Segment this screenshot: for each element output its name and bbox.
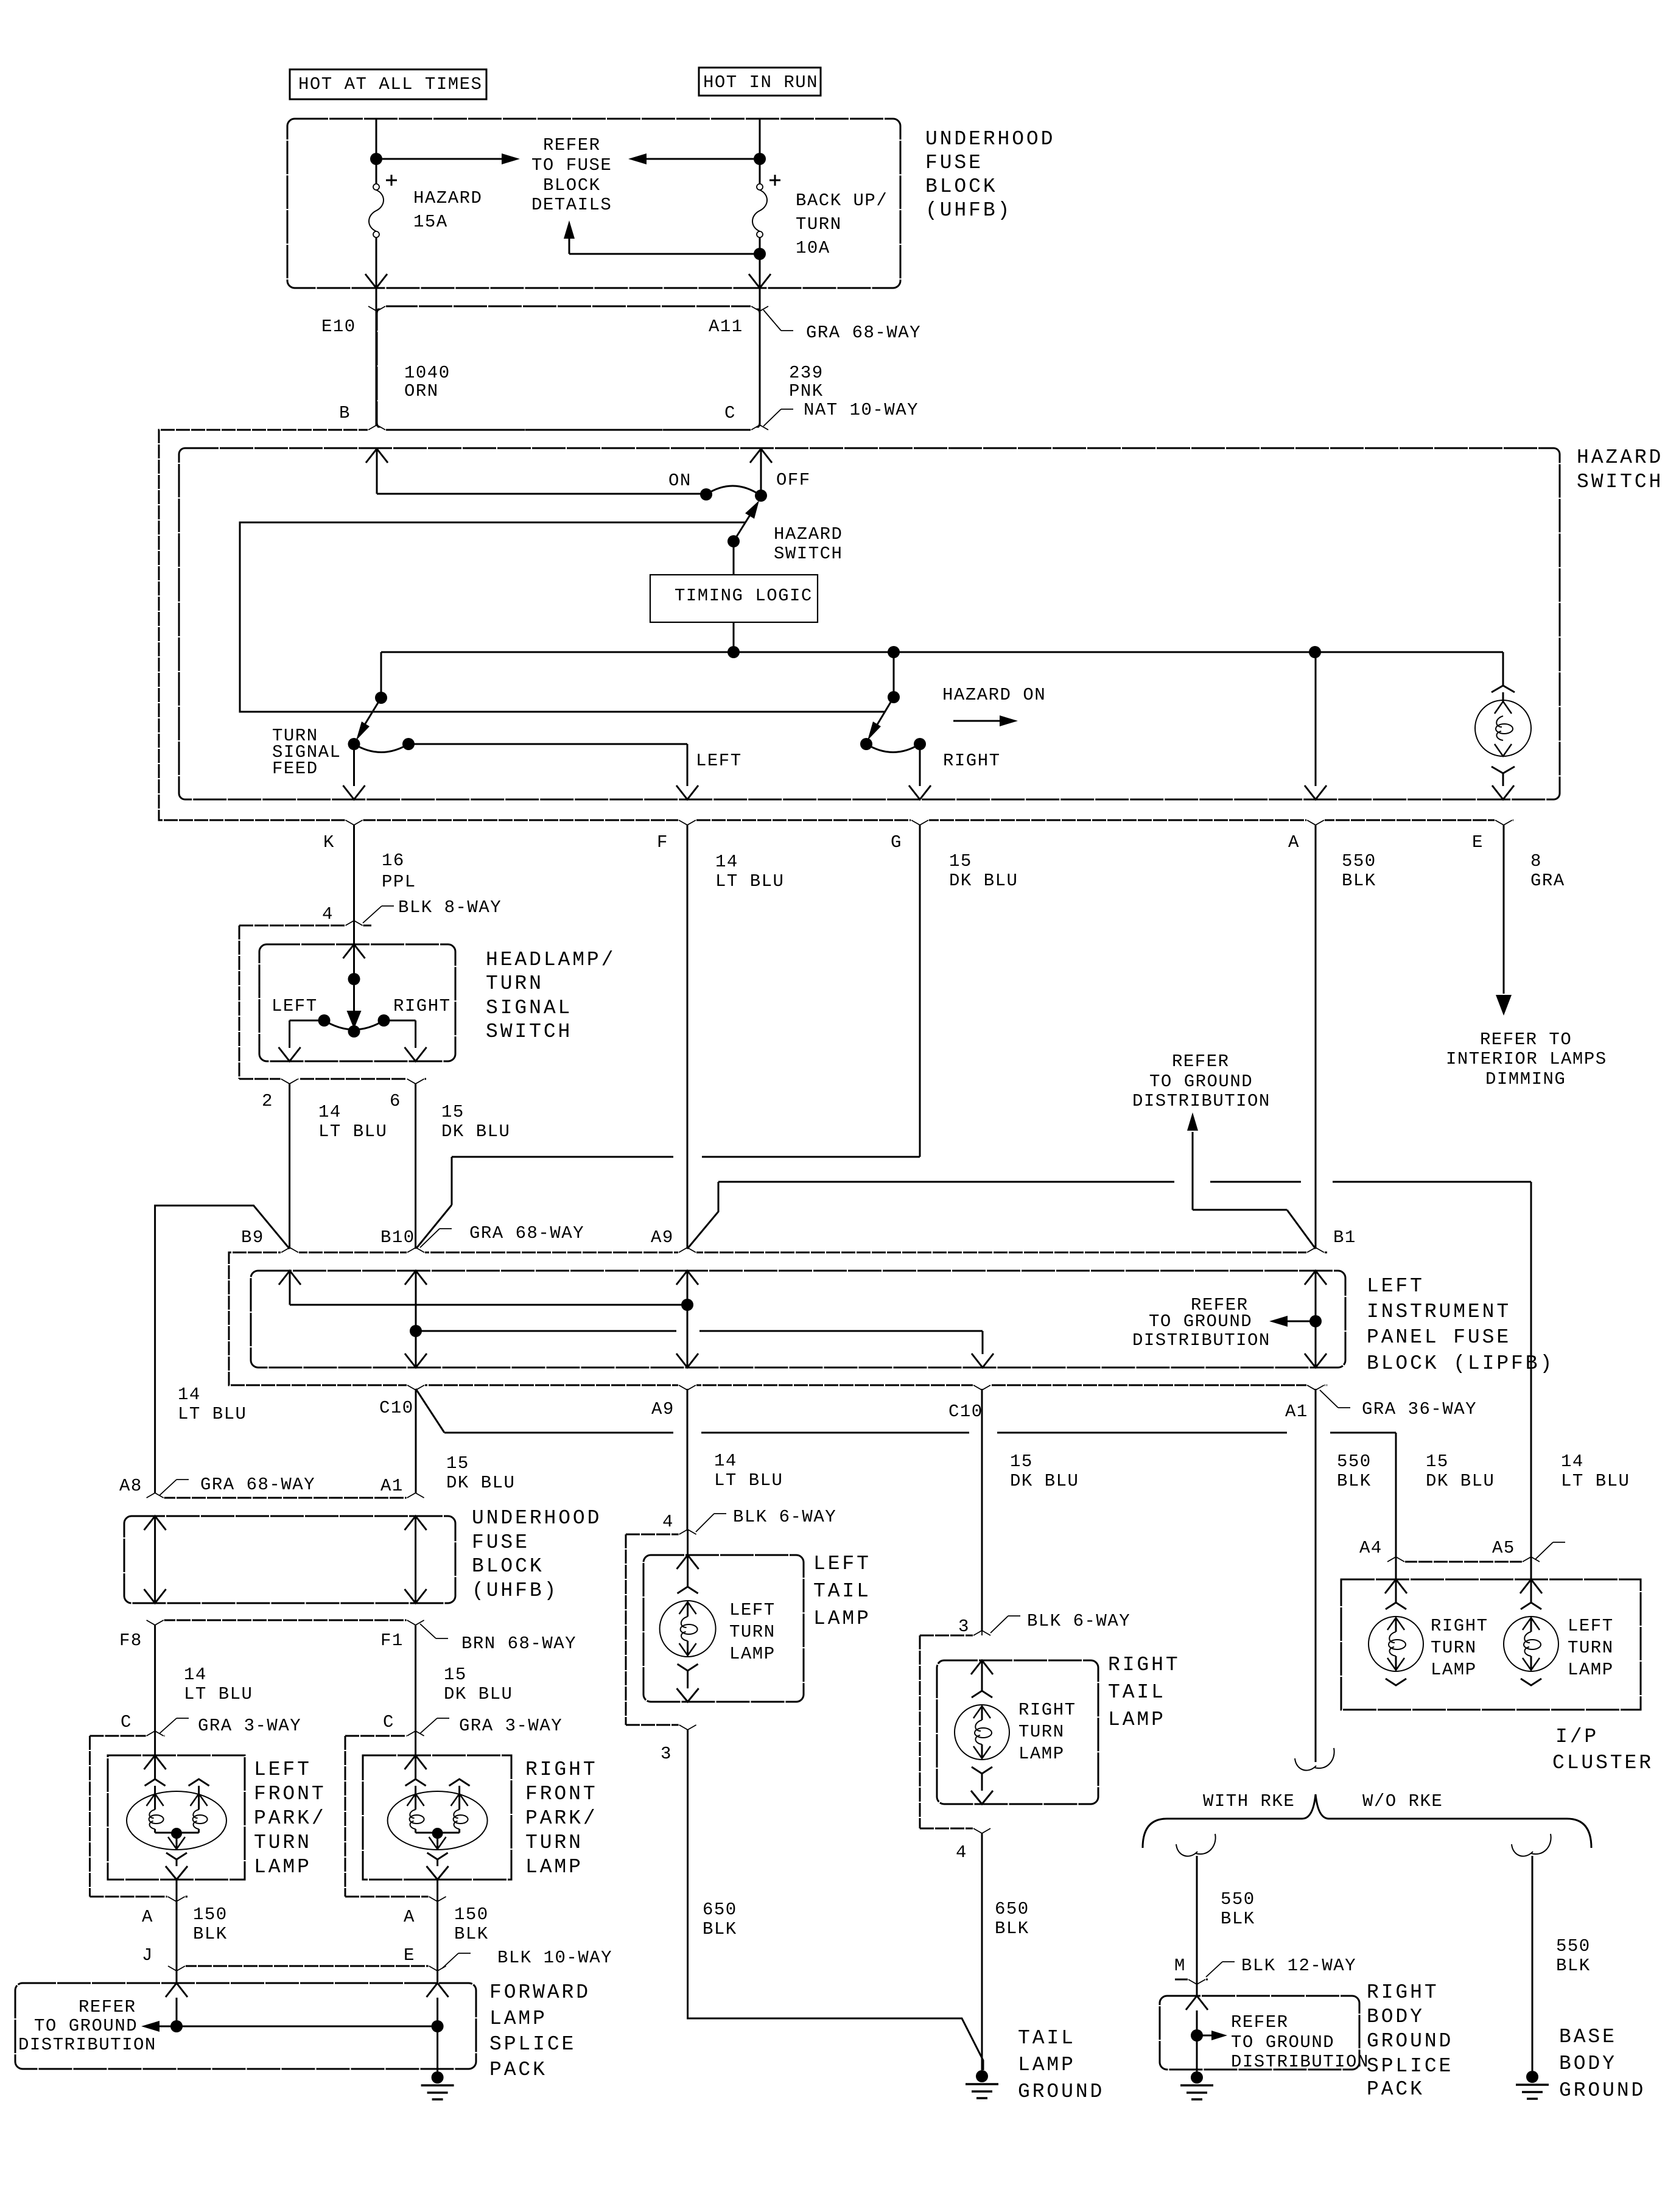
svg-text:10A: 10A — [796, 238, 830, 258]
svg-text:RIGHT: RIGHT — [943, 751, 1001, 771]
svg-text:TURN: TURN — [1568, 1638, 1614, 1658]
svg-text:A8: A8 — [119, 1476, 142, 1496]
svg-text:FRONT: FRONT — [254, 1783, 326, 1805]
svg-text:GRA 36-WAY: GRA 36-WAY — [1362, 1399, 1477, 1419]
svg-text:2: 2 — [262, 1091, 273, 1111]
svg-text:REFER: REFER — [1172, 1052, 1230, 1072]
svg-text:REFER: REFER — [1231, 2012, 1289, 2032]
svg-text:INTERIOR LAMPS: INTERIOR LAMPS — [1446, 1049, 1607, 1069]
svg-text:LEFT: LEFT — [272, 996, 318, 1016]
svg-text:HEADLAMP/: HEADLAMP/ — [486, 949, 615, 971]
svg-text:F1: F1 — [380, 1631, 404, 1651]
svg-text:BLOCK: BLOCK — [472, 1555, 544, 1578]
svg-text:LAMP: LAMP — [1018, 2054, 1076, 2076]
svg-text:BRN 68-WAY: BRN 68-WAY — [461, 1634, 577, 1654]
svg-text:15A: 15A — [413, 212, 448, 232]
svg-text:BODY: BODY — [1559, 2052, 1617, 2075]
svg-text:RIGHT: RIGHT — [1018, 1700, 1076, 1720]
svg-text:TURN: TURN — [1018, 1722, 1065, 1742]
svg-text:UNDERHOOD: UNDERHOOD — [472, 1507, 601, 1529]
svg-text:4: 4 — [956, 1842, 967, 1863]
svg-text:LEFT: LEFT — [729, 1600, 776, 1620]
svg-text:BLK 10-WAY: BLK 10-WAY — [497, 1948, 612, 1968]
svg-text:DK BLU: DK BLU — [1010, 1471, 1079, 1491]
svg-text:15: 15 — [1426, 1452, 1449, 1472]
svg-text:G: G — [891, 832, 902, 852]
svg-text:A4: A4 — [1359, 1538, 1383, 1558]
svg-text:UNDERHOOD: UNDERHOOD — [925, 128, 1055, 150]
svg-text:B1: B1 — [1333, 1227, 1356, 1248]
svg-text:C: C — [121, 1712, 132, 1732]
svg-text:LEFT: LEFT — [254, 1758, 312, 1781]
svg-text:BLK: BLK — [1556, 1956, 1591, 1976]
svg-text:DK BLU: DK BLU — [1426, 1471, 1495, 1491]
svg-text:LAMP: LAMP — [489, 2007, 547, 2030]
svg-text:J: J — [142, 1945, 153, 1965]
svg-text:650: 650 — [995, 1899, 1029, 1919]
svg-text:15: 15 — [444, 1665, 467, 1685]
svg-text:TURN: TURN — [525, 1831, 583, 1854]
svg-text:A11: A11 — [709, 317, 743, 337]
svg-text:GRA 68-WAY: GRA 68-WAY — [806, 323, 921, 343]
svg-text:FORWARD: FORWARD — [489, 1981, 591, 2004]
svg-text:FUSE: FUSE — [472, 1531, 530, 1554]
svg-text:DK BLU: DK BLU — [444, 1684, 513, 1704]
svg-text:LT BLU: LT BLU — [318, 1122, 387, 1142]
svg-text:RIGHT: RIGHT — [1431, 1616, 1488, 1636]
svg-text:239: 239 — [789, 363, 824, 383]
svg-text:RIGHT: RIGHT — [525, 1758, 598, 1781]
svg-text:BACK UP/: BACK UP/ — [796, 191, 888, 211]
svg-text:LEFT: LEFT — [1367, 1275, 1425, 1297]
svg-text:I/P: I/P — [1555, 1726, 1599, 1748]
svg-text:GROUND: GROUND — [1559, 2079, 1646, 2102]
svg-text:14: 14 — [715, 852, 738, 872]
svg-text:DISTRIBUTION: DISTRIBUTION — [1132, 1330, 1271, 1350]
svg-text:C10: C10 — [948, 1402, 983, 1422]
svg-text:DK BLU: DK BLU — [949, 871, 1018, 891]
svg-text:BLOCK: BLOCK — [543, 175, 601, 195]
svg-text:DISTRIBUTION: DISTRIBUTION — [1132, 1091, 1271, 1111]
svg-text:E: E — [404, 1945, 415, 1965]
svg-text:1040: 1040 — [404, 363, 450, 383]
svg-text:TAIL: TAIL — [813, 1580, 871, 1603]
svg-text:150: 150 — [454, 1905, 489, 1925]
svg-text:TIMING LOGIC: TIMING LOGIC — [675, 586, 813, 606]
svg-text:A: A — [404, 1907, 415, 1927]
svg-text:LEFT: LEFT — [813, 1553, 871, 1575]
svg-text:(UHFB): (UHFB) — [925, 199, 1012, 222]
svg-text:GRA 3-WAY: GRA 3-WAY — [198, 1716, 301, 1736]
svg-text:15: 15 — [949, 851, 972, 871]
svg-text:DIMMING: DIMMING — [1485, 1069, 1566, 1089]
svg-text:LT BLU: LT BLU — [184, 1684, 253, 1704]
svg-text:LT BLU: LT BLU — [178, 1404, 247, 1424]
svg-text:TURN: TURN — [486, 972, 544, 995]
svg-text:TO GROUND: TO GROUND — [1231, 2032, 1334, 2052]
svg-text:GRA 68-WAY: GRA 68-WAY — [200, 1475, 315, 1495]
svg-text:BLK 12-WAY: BLK 12-WAY — [1241, 1956, 1356, 1976]
svg-text:INSTRUMENT: INSTRUMENT — [1367, 1301, 1511, 1323]
svg-text:LAMP: LAMP — [254, 1856, 312, 1878]
svg-text:16: 16 — [382, 851, 405, 871]
svg-text:14: 14 — [714, 1451, 737, 1471]
svg-text:550: 550 — [1221, 1889, 1255, 1909]
svg-text:K: K — [323, 832, 335, 852]
svg-text:SIGNAL: SIGNAL — [486, 997, 572, 1019]
svg-text:DK BLU: DK BLU — [441, 1122, 510, 1142]
svg-text:LT BLU: LT BLU — [714, 1470, 783, 1490]
svg-text:LAMP: LAMP — [729, 1644, 776, 1664]
svg-text:BLK: BLK — [1337, 1471, 1372, 1491]
svg-text:B9: B9 — [241, 1227, 264, 1248]
svg-text:550: 550 — [1342, 851, 1376, 871]
svg-text:A1: A1 — [1285, 1402, 1308, 1422]
svg-text:14: 14 — [184, 1665, 207, 1685]
svg-text:TAIL: TAIL — [1108, 1681, 1166, 1704]
svg-text:6: 6 — [390, 1091, 401, 1111]
svg-text:RIGHT: RIGHT — [393, 996, 451, 1016]
svg-text:150: 150 — [193, 1905, 228, 1925]
svg-text:TO GROUND: TO GROUND — [1149, 1072, 1253, 1092]
svg-text:REFER TO: REFER TO — [1480, 1030, 1572, 1050]
svg-text:LAMP: LAMP — [525, 1856, 583, 1878]
svg-text:PNK: PNK — [789, 381, 824, 401]
svg-text:F8: F8 — [119, 1631, 142, 1651]
svg-text:FUSE: FUSE — [925, 152, 983, 174]
svg-text:A9: A9 — [651, 1399, 675, 1419]
svg-text:BLK: BLK — [1221, 1909, 1255, 1929]
svg-text:LAMP: LAMP — [813, 1607, 871, 1630]
svg-text:A5: A5 — [1492, 1538, 1515, 1558]
svg-text:HOT AT ALL TIMES: HOT AT ALL TIMES — [298, 74, 482, 94]
svg-text:DISTRIBUTION: DISTRIBUTION — [1231, 2052, 1369, 2072]
svg-text:F: F — [657, 832, 668, 852]
svg-text:15: 15 — [441, 1102, 464, 1122]
svg-text:15: 15 — [1010, 1452, 1033, 1472]
svg-text:BLK 6-WAY: BLK 6-WAY — [1027, 1611, 1130, 1631]
svg-text:BLK: BLK — [703, 1919, 737, 1939]
svg-text:BLK 8-WAY: BLK 8-WAY — [398, 897, 502, 918]
svg-text:PACK: PACK — [489, 2059, 547, 2081]
svg-text:4: 4 — [322, 904, 334, 924]
svg-text:NAT 10-WAY: NAT 10-WAY — [804, 400, 919, 420]
svg-text:TO FUSE: TO FUSE — [531, 155, 612, 175]
svg-text:WITH RKE: WITH RKE — [1203, 1791, 1295, 1811]
svg-text:LAMP: LAMP — [1108, 1708, 1166, 1731]
svg-text:LEFT: LEFT — [1568, 1616, 1614, 1636]
svg-text:C: C — [724, 403, 736, 423]
svg-text:TURN: TURN — [1431, 1638, 1477, 1658]
svg-text:A9: A9 — [651, 1227, 674, 1248]
svg-text:BLK: BLK — [1342, 871, 1376, 891]
svg-text:W/O RKE: W/O RKE — [1362, 1791, 1443, 1811]
svg-text:BASE: BASE — [1559, 2026, 1617, 2048]
svg-text:CLUSTER: CLUSTER — [1552, 1752, 1653, 1774]
svg-text:A1: A1 — [380, 1476, 404, 1496]
svg-text:14: 14 — [318, 1102, 342, 1122]
svg-text:3: 3 — [661, 1744, 672, 1764]
svg-text:TURN: TURN — [254, 1831, 312, 1854]
svg-text:REFER: REFER — [79, 1997, 136, 2017]
svg-text:8: 8 — [1530, 851, 1542, 871]
svg-text:LT BLU: LT BLU — [1561, 1471, 1630, 1491]
svg-text:TO GROUND: TO GROUND — [1149, 1311, 1252, 1332]
svg-text:TO GROUND: TO GROUND — [34, 2016, 138, 2036]
svg-text:BLK: BLK — [193, 1924, 228, 1944]
svg-text:GRA: GRA — [1530, 871, 1565, 891]
svg-text:BODY: BODY — [1367, 2006, 1425, 2028]
svg-text:PARK/: PARK/ — [525, 1807, 598, 1830]
svg-text:(UHFB): (UHFB) — [472, 1579, 558, 1602]
svg-text:LAMP: LAMP — [1568, 1660, 1614, 1680]
svg-text:BLK: BLK — [454, 1924, 489, 1944]
svg-text:HOT IN RUN: HOT IN RUN — [703, 72, 818, 93]
svg-text:SWITCH: SWITCH — [486, 1020, 572, 1043]
svg-text:GROUND: GROUND — [1018, 2080, 1104, 2103]
svg-text:SWITCH: SWITCH — [774, 544, 843, 564]
svg-text:A: A — [142, 1907, 153, 1927]
svg-text:HAZARD: HAZARD — [1577, 446, 1663, 469]
svg-text:SWITCH: SWITCH — [1577, 471, 1663, 493]
svg-text:SPLICE: SPLICE — [489, 2033, 576, 2056]
svg-text:DISTRIBUTION: DISTRIBUTION — [18, 2035, 156, 2055]
svg-text:E10: E10 — [321, 317, 356, 337]
svg-text:TAIL: TAIL — [1018, 2027, 1076, 2049]
svg-text:RIGHT: RIGHT — [1108, 1654, 1180, 1676]
svg-text:650: 650 — [703, 1900, 737, 1920]
svg-text:A: A — [1288, 832, 1300, 852]
svg-text:GRA 3-WAY: GRA 3-WAY — [459, 1716, 563, 1736]
svg-text:DETAILS: DETAILS — [531, 195, 612, 215]
svg-text:C: C — [383, 1712, 394, 1732]
svg-text:550: 550 — [1556, 1936, 1591, 1956]
svg-text:15: 15 — [446, 1453, 469, 1473]
svg-text:PARK/: PARK/ — [254, 1807, 326, 1830]
svg-text:ON: ON — [668, 471, 692, 491]
svg-text:REFER: REFER — [543, 135, 601, 155]
svg-text:TURN: TURN — [729, 1622, 776, 1642]
svg-text:M: M — [1174, 1956, 1186, 1976]
svg-text:FEED: FEED — [272, 759, 318, 779]
svg-text:RIGHT: RIGHT — [1367, 1981, 1439, 2004]
svg-text:GRA 68-WAY: GRA 68-WAY — [469, 1223, 584, 1243]
svg-text:C10: C10 — [379, 1398, 414, 1418]
svg-text:BLK: BLK — [995, 1919, 1029, 1939]
svg-text:OFF: OFF — [776, 470, 811, 490]
svg-text:PACK: PACK — [1367, 2078, 1425, 2101]
svg-text:14: 14 — [178, 1385, 201, 1405]
svg-text:BLOCK (LIPFB): BLOCK (LIPFB) — [1367, 1352, 1554, 1375]
svg-text:LT BLU: LT BLU — [715, 871, 784, 891]
svg-text:DK BLU: DK BLU — [446, 1473, 515, 1493]
svg-text:14: 14 — [1561, 1452, 1584, 1472]
svg-text:PPL: PPL — [382, 872, 416, 892]
svg-text:LAMP: LAMP — [1431, 1660, 1477, 1680]
svg-text:FRONT: FRONT — [525, 1783, 598, 1805]
svg-text:SPLICE: SPLICE — [1367, 2055, 1453, 2077]
svg-text:HAZARD: HAZARD — [413, 188, 482, 208]
svg-text:4: 4 — [662, 1512, 674, 1532]
svg-text:GROUND: GROUND — [1367, 2030, 1453, 2052]
svg-text:B10: B10 — [380, 1227, 415, 1248]
svg-text:E: E — [1472, 832, 1484, 852]
svg-text:B: B — [339, 403, 351, 423]
svg-text:PANEL FUSE: PANEL FUSE — [1367, 1326, 1511, 1349]
svg-text:ORN: ORN — [404, 381, 439, 401]
svg-text:3: 3 — [958, 1617, 970, 1637]
svg-text:HAZARD ON: HAZARD ON — [942, 685, 1046, 705]
svg-text:BLK 6-WAY: BLK 6-WAY — [733, 1507, 836, 1527]
svg-text:LEFT: LEFT — [696, 751, 742, 771]
svg-text:TURN: TURN — [796, 214, 842, 234]
svg-text:BLOCK: BLOCK — [925, 175, 998, 198]
svg-text:LAMP: LAMP — [1018, 1744, 1065, 1764]
svg-text:HAZARD: HAZARD — [774, 524, 843, 544]
svg-text:550: 550 — [1337, 1452, 1372, 1472]
